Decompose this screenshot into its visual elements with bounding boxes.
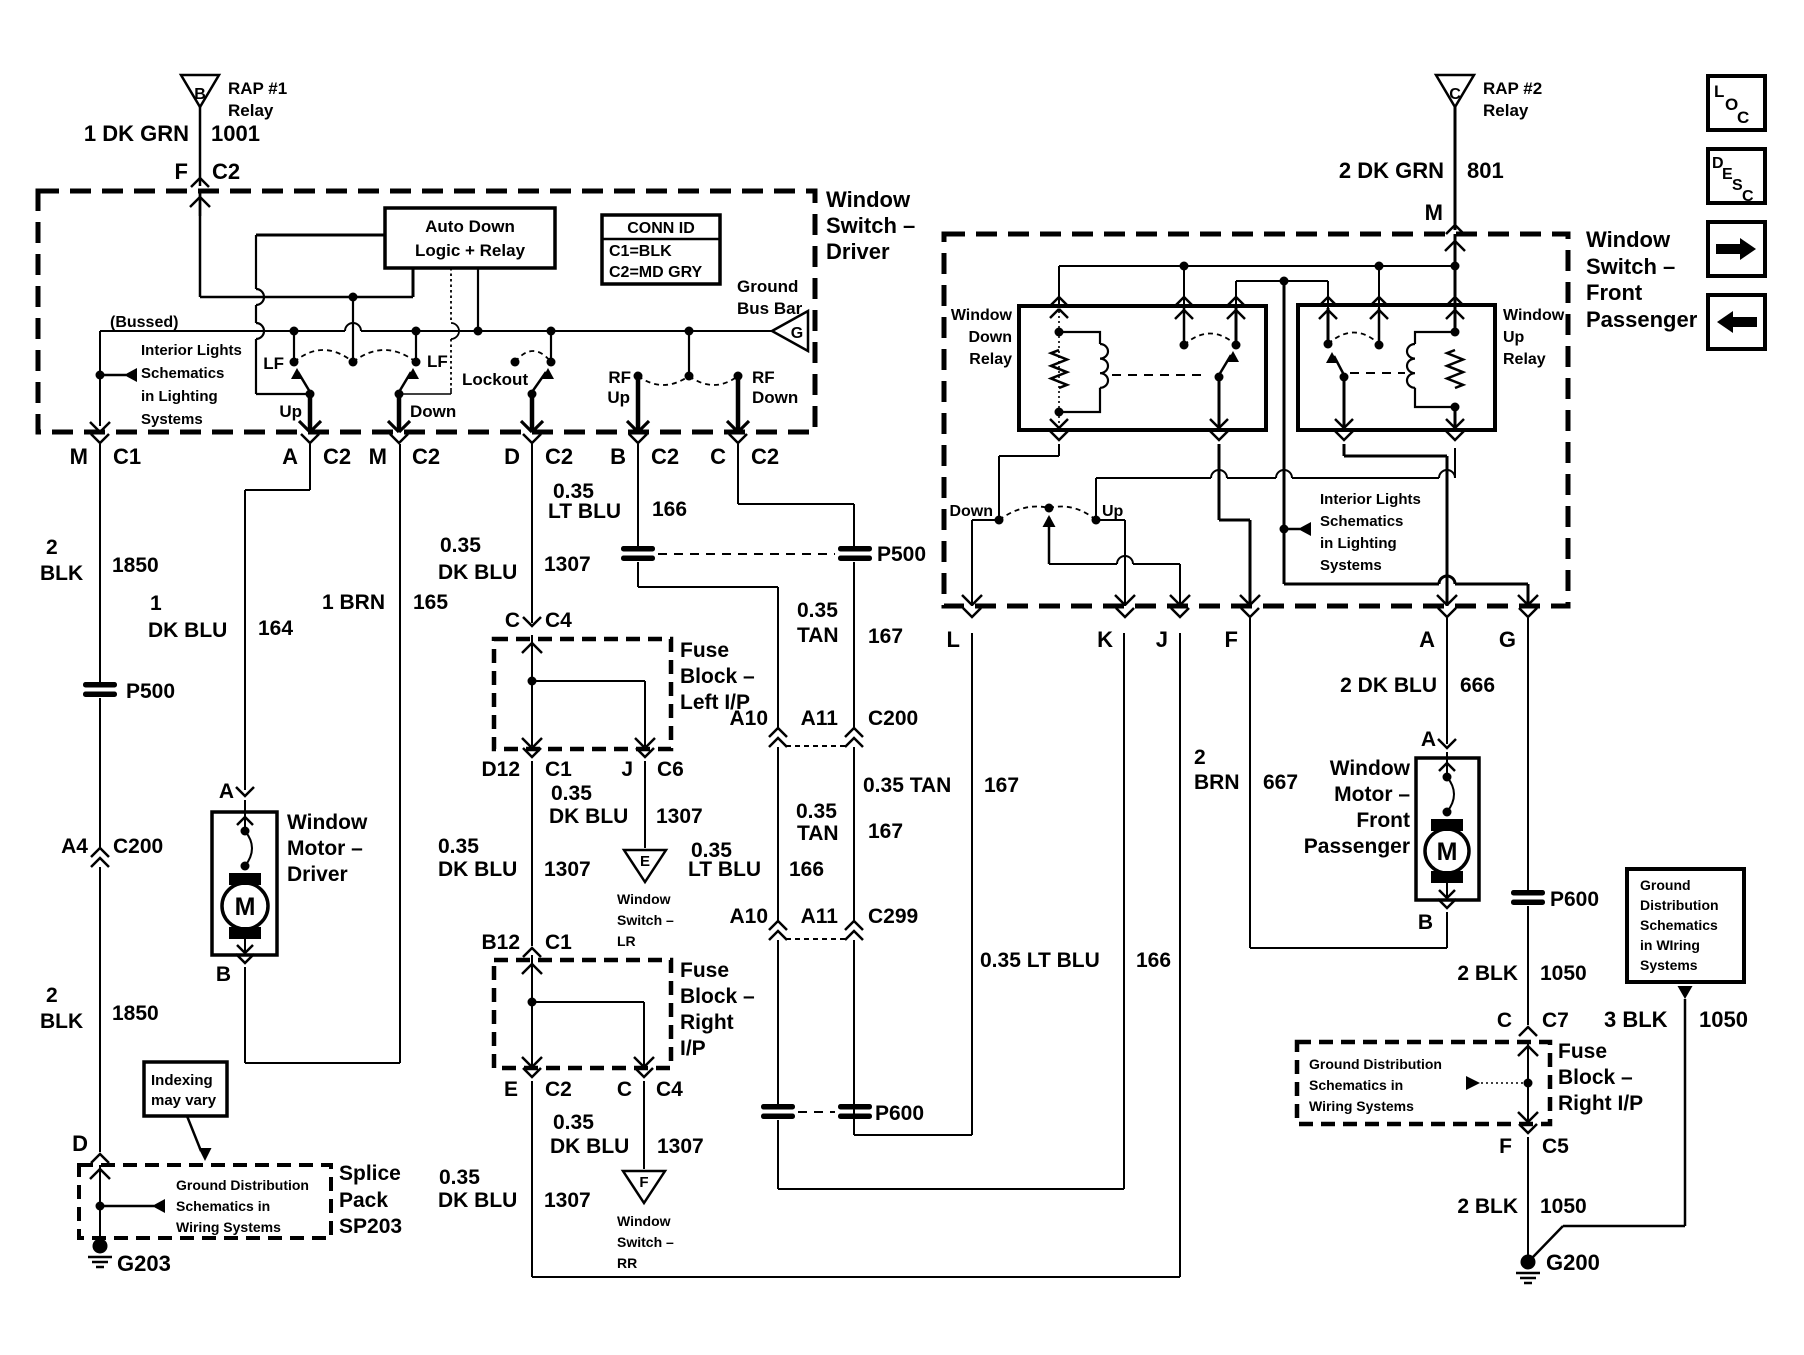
svg-text:C: C <box>1449 86 1461 103</box>
callout arrow to splice pack <box>187 1116 201 1151</box>
svg-text:D: D <box>504 444 520 469</box>
down relay coil L1 <box>1059 332 1100 344</box>
junction dot in left fuse block <box>528 677 537 686</box>
svg-text:801: 801 <box>1467 158 1504 183</box>
motor driver bottom pin arrow <box>244 939 246 955</box>
junction dots on feed wire <box>1180 262 1189 271</box>
svg-text:C: C <box>1497 1009 1512 1032</box>
svg-text:M: M <box>369 444 387 469</box>
svg-text:1050: 1050 <box>1699 1007 1748 1032</box>
svg-text:SP203: SP203 <box>339 1215 402 1238</box>
svg-text:Window: Window <box>617 1213 671 1229</box>
down relay resistor <box>1051 350 1067 388</box>
ground run wire to G output (hops A) <box>1284 583 1439 586</box>
inline connector P600 right cavity <box>838 1104 872 1110</box>
svg-text:C299: C299 <box>868 905 918 928</box>
wire 2 DK BLU 666 from A <box>1446 618 1448 744</box>
LF Up contact dot <box>290 358 299 367</box>
long output wire from relay link to ground run <box>1283 281 1286 584</box>
svg-text:Schematics in: Schematics in <box>176 1198 270 1214</box>
svg-text:Window: Window <box>826 187 911 212</box>
svg-text:E: E <box>640 853 650 870</box>
reference pointer Interior Lights Schematics (passenger) <box>1284 528 1300 531</box>
svg-text:DK BLU: DK BLU <box>550 1135 629 1158</box>
svg-text:RR: RR <box>617 1255 637 1271</box>
connector F <box>1241 608 1259 617</box>
svg-text:0.35: 0.35 <box>439 1166 480 1189</box>
svg-text:DK BLU: DK BLU <box>438 1189 517 1212</box>
wire J riser <box>1179 633 1181 1277</box>
svg-text:C1=BLK: C1=BLK <box>609 243 672 260</box>
motor driver commutator dots and arc <box>241 827 250 836</box>
svg-text:I/P: I/P <box>680 1037 706 1060</box>
svg-text:P600: P600 <box>875 1102 924 1125</box>
svg-text:Block –: Block – <box>680 985 755 1008</box>
svg-text:Up: Up <box>1503 329 1525 346</box>
down relay contact dots <box>1180 341 1189 350</box>
svg-text:2 BLK: 2 BLK <box>1457 962 1518 985</box>
svg-text:L: L <box>1714 82 1724 101</box>
svg-text:Switch –: Switch – <box>826 213 915 238</box>
svg-text:in WIring: in WIring <box>1640 937 1700 953</box>
svg-text:C: C <box>710 444 726 469</box>
svg-text:2: 2 <box>46 984 58 1007</box>
wire center contact drop <box>352 297 354 362</box>
LF Down pivot dot <box>395 390 404 399</box>
Auto Down module right pin drop to bus <box>477 268 479 331</box>
inline connector P500 (BLK) <box>83 682 117 688</box>
junction dot interior-lights tap <box>96 371 105 380</box>
motor FP brush bottom <box>1431 871 1463 883</box>
svg-text:LF: LF <box>263 354 284 373</box>
connector M C2 <box>390 434 408 443</box>
svg-text:2 BLK: 2 BLK <box>1457 1195 1518 1218</box>
svg-text:BLK: BLK <box>40 562 83 585</box>
connector G <box>1519 608 1537 617</box>
LF Up pivot dot <box>306 390 315 399</box>
wire LT BLU below P500 jog to x778 <box>637 562 639 587</box>
svg-text:F: F <box>175 159 188 184</box>
wire blade to J output (hops K) <box>1049 563 1117 565</box>
svg-text:C4: C4 <box>656 1078 683 1101</box>
svg-text:A10: A10 <box>729 707 768 730</box>
svg-text:in Lighting: in Lighting <box>1320 535 1397 552</box>
svg-text:P500: P500 <box>126 680 175 703</box>
left fuse block exit arrows <box>522 738 532 748</box>
up relay feed drop <box>1454 266 1457 306</box>
up relay coil return chevron <box>1446 431 1464 440</box>
svg-text:Down: Down <box>752 388 798 407</box>
motor driver top pin arrow <box>244 800 246 830</box>
Lockout right contact dot <box>547 358 556 367</box>
svg-text:C: C <box>1737 108 1749 127</box>
svg-text:1307: 1307 <box>544 858 591 881</box>
svg-text:1050: 1050 <box>1540 1195 1587 1218</box>
svg-text:Relay: Relay <box>1503 351 1546 368</box>
svg-text:G: G <box>791 325 803 342</box>
svg-text:DK BLU: DK BLU <box>549 805 628 828</box>
svg-text:C2: C2 <box>751 444 779 469</box>
svg-text:2 DK BLU: 2 DK BLU <box>1340 674 1437 697</box>
svg-text:2 DK GRN: 2 DK GRN <box>1339 158 1444 183</box>
RF Down contact dot <box>734 372 743 381</box>
svg-text:1307: 1307 <box>657 1135 704 1158</box>
svg-text:166: 166 <box>652 498 687 521</box>
svg-text:167: 167 <box>984 774 1019 797</box>
Window Switch - Driver dashed box <box>38 191 815 432</box>
wire 0.35 DK BLU 1307 from D/C2 <box>531 444 533 623</box>
svg-text:A: A <box>1421 728 1436 751</box>
center fuse block exit arrows <box>522 1057 532 1067</box>
passenger gang dashed arc Down-center <box>999 507 1049 521</box>
down relay coil return to Down contact <box>1050 431 1068 440</box>
up relay coil junction dots <box>1451 328 1460 337</box>
svg-text:A10: A10 <box>729 905 768 928</box>
svg-text:2: 2 <box>46 536 58 559</box>
svg-text:K: K <box>1097 627 1113 652</box>
up feed wire to up relay (hops F, link, A) <box>1095 478 1097 520</box>
svg-text:0.35: 0.35 <box>553 1111 594 1134</box>
up relay contact arrows <box>1327 308 1330 344</box>
off-page connector F window switch RR <box>623 1171 665 1203</box>
arrow entering passenger switch box <box>1454 234 1457 266</box>
Lockout switch left contact dot <box>511 358 520 367</box>
connector J <box>1171 608 1189 617</box>
down relay pivot output arrow <box>1218 377 1221 430</box>
Lockout pivot dot <box>528 390 537 399</box>
svg-text:167: 167 <box>868 625 903 648</box>
svg-text:C5: C5 <box>1542 1135 1569 1158</box>
svg-text:DK BLU: DK BLU <box>148 619 227 642</box>
svg-text:E: E <box>504 1078 518 1101</box>
RAP #1 Relay triangle connector B <box>181 75 219 107</box>
svg-text:0.35: 0.35 <box>440 534 481 557</box>
svg-text:B: B <box>1418 911 1433 934</box>
junction dot link to output <box>1280 277 1289 286</box>
svg-text:A11: A11 <box>801 707 839 730</box>
center dot passenger switch <box>1045 504 1054 513</box>
down relay right contact drop <box>1235 281 1237 310</box>
svg-text:Right: Right <box>680 1011 734 1034</box>
svg-text:Switch –: Switch – <box>617 912 674 928</box>
up relay pivot dot <box>1340 373 1349 382</box>
svg-text:C200: C200 <box>113 835 163 858</box>
svg-text:Front: Front <box>1586 280 1643 305</box>
svg-text:D12: D12 <box>481 758 520 781</box>
LF Down switch blade <box>399 372 411 392</box>
svg-text:Relay: Relay <box>228 101 274 120</box>
svg-text:0.35: 0.35 <box>796 800 837 823</box>
svg-text:Pack: Pack <box>339 1189 388 1212</box>
Lockout output arrow to D/C2 <box>530 394 535 432</box>
wire 2 BLK 1850 lower segment <box>99 867 101 1152</box>
svg-text:Block –: Block – <box>1558 1066 1633 1089</box>
junction dot module to bus <box>474 327 483 336</box>
svg-text:F: F <box>639 1174 648 1191</box>
svg-text:667: 667 <box>1263 771 1298 794</box>
svg-text:C1: C1 <box>113 444 141 469</box>
down relay contact arrows <box>1183 308 1186 345</box>
motor FP top pin arrow <box>1446 752 1448 776</box>
svg-text:Ground: Ground <box>737 277 798 296</box>
up relay resistor <box>1447 350 1463 388</box>
svg-text:1850: 1850 <box>112 1002 159 1025</box>
wire G output 2 BLK 1050 <box>1527 618 1529 890</box>
svg-text:L: L <box>947 627 960 652</box>
down relay mid contact drop <box>1183 266 1185 310</box>
Window Up Relay K2 box <box>1298 305 1495 430</box>
svg-text:Relay: Relay <box>969 351 1012 368</box>
wire Down contact to L output <box>972 519 999 521</box>
svg-text:1307: 1307 <box>544 553 591 576</box>
Indexing may vary callout box <box>144 1062 227 1116</box>
Up contact dot passenger <box>1092 516 1101 525</box>
wire BLK below P600 <box>1527 906 1529 1025</box>
Window Down Relay K1 box <box>1019 306 1266 430</box>
svg-text:Right I/P: Right I/P <box>1558 1092 1643 1115</box>
svg-text:RF: RF <box>608 368 631 387</box>
wire L riser 0.35 TAN 167 <box>971 633 973 1135</box>
dashed gang arc middle to RF Down <box>689 376 738 385</box>
window motor front passenger M2 box <box>1416 758 1479 900</box>
passenger switch blade arrow up <box>1048 517 1051 564</box>
Splice Pack SP203 dashed box <box>79 1165 331 1238</box>
connector A <box>1438 608 1456 617</box>
svg-text:in Lighting: in Lighting <box>141 388 218 405</box>
svg-text:Up: Up <box>607 388 630 407</box>
svg-text:Bus Bar: Bus Bar <box>737 299 803 318</box>
svg-text:Window: Window <box>617 891 671 907</box>
wire 0.35 TAN 167 from C/C2 <box>737 444 739 504</box>
svg-text:166: 166 <box>789 858 824 881</box>
svg-text:G200: G200 <box>1546 1250 1600 1275</box>
svg-text:0.35: 0.35 <box>797 599 838 622</box>
node center contact dot between LF switches <box>349 358 358 367</box>
svg-text:P500: P500 <box>877 543 926 566</box>
dashed link P600 <box>798 1111 835 1113</box>
svg-text:P600: P600 <box>1550 888 1599 911</box>
motor driver armature circle M <box>222 883 268 929</box>
svg-text:1050: 1050 <box>1540 962 1587 985</box>
Ground Bus Bar triangle G <box>772 311 808 351</box>
dashed gang arc LF Up to center <box>294 350 353 362</box>
svg-text:666: 666 <box>1460 674 1495 697</box>
wire Auto Down module bottom-left pin drop <box>412 268 415 297</box>
svg-text:Window: Window <box>287 811 368 834</box>
junction dot interior lights tap passenger <box>1280 525 1289 534</box>
inline connector P500 left cavity <box>621 546 655 552</box>
motor driver brush bottom <box>229 927 261 939</box>
RF Down output arrow to C/C2 <box>736 376 741 432</box>
contact link wire between relays <box>1236 280 1328 282</box>
wire bottom run E to J <box>532 1276 1180 1278</box>
wire TAN through P500 down <box>853 562 855 730</box>
wire F/C2 power drop inside box <box>199 191 202 297</box>
svg-text:LF: LF <box>427 352 448 371</box>
svg-text:0.35 TAN: 0.35 TAN <box>863 774 951 797</box>
wire 0.35 DK BLU 1307 to window switch RR <box>643 1081 645 1169</box>
svg-text:A: A <box>1419 627 1435 652</box>
up relay mechanical dashed link <box>1350 372 1405 374</box>
svg-text:167: 167 <box>868 820 903 843</box>
wire Auto Down module left pin to LF Up pivot (hops power and bus) <box>256 234 385 237</box>
off-page connector E window switch LR <box>624 850 666 882</box>
ground G203 <box>93 1239 108 1254</box>
svg-text:Wiring Systems: Wiring Systems <box>176 1219 281 1235</box>
svg-text:2: 2 <box>1194 746 1206 769</box>
LF Up output arrow to A/C2 <box>308 394 313 432</box>
svg-text:C2: C2 <box>212 159 240 184</box>
wire bussed corner down to M/C1 <box>99 331 101 426</box>
down relay coil junction dots <box>1055 328 1064 337</box>
svg-text:TAN: TAN <box>797 822 839 845</box>
svg-text:C2: C2 <box>412 444 440 469</box>
svg-text:BRN: BRN <box>1194 771 1240 794</box>
svg-text:C4: C4 <box>545 609 572 632</box>
wire Up contact to K output <box>1096 519 1125 521</box>
svg-text:1 BRN: 1 BRN <box>322 591 385 614</box>
svg-text:1307: 1307 <box>656 805 703 828</box>
RAP #2 Relay triangle connector C <box>1436 75 1474 107</box>
feed wire from M across relays <box>1059 265 1455 267</box>
dashed gang arc center to LF Down <box>353 350 416 362</box>
down relay internal dotted path with arrows <box>1058 306 1060 430</box>
dashed connector line C299 <box>786 938 846 940</box>
RF Up output arrow to B/C2 <box>636 376 641 432</box>
svg-text:Down: Down <box>410 402 456 421</box>
up relay coil return arrow <box>1454 407 1457 430</box>
svg-text:Fuse: Fuse <box>1558 1040 1607 1063</box>
Fuse Block - Left I/P dashed box <box>494 639 671 749</box>
svg-text:Relay: Relay <box>1483 101 1529 120</box>
wire inside center right fuse block with up arrow <box>531 955 533 1066</box>
RF middle dot <box>685 372 694 381</box>
svg-text:C200: C200 <box>868 707 918 730</box>
Fuse Block - Right I/P dashed box (right) <box>1297 1042 1550 1124</box>
svg-text:C1: C1 <box>545 758 572 781</box>
svg-text:J: J <box>621 758 633 781</box>
wire RAP#2 2 DK GRN 801 <box>1454 107 1457 230</box>
svg-text:166: 166 <box>1136 949 1171 972</box>
svg-text:Window: Window <box>1503 307 1565 324</box>
svg-text:Front: Front <box>1356 809 1410 832</box>
wire LT BLU bottom run to K riser <box>777 1120 779 1189</box>
wire TAN below C299 to bottom corner <box>853 940 855 1135</box>
svg-text:Up: Up <box>1102 503 1124 520</box>
connector C C2 <box>729 434 747 443</box>
svg-text:3 BLK: 3 BLK <box>1604 1007 1668 1032</box>
CONN ID table <box>602 215 720 284</box>
LF Down output arrow to M/C2 <box>397 394 402 432</box>
svg-text:Interior Lights: Interior Lights <box>141 342 242 359</box>
connector K <box>1116 608 1134 617</box>
wire inside left fuse block with down arrow <box>531 635 533 746</box>
svg-text:Systems: Systems <box>1320 557 1382 574</box>
svg-text:Logic + Relay: Logic + Relay <box>415 241 526 260</box>
svg-text:Auto Down: Auto Down <box>425 217 515 236</box>
svg-text:165: 165 <box>413 591 448 614</box>
wire TAN bottom run to L riser <box>854 1134 972 1136</box>
svg-text:(Bussed): (Bussed) <box>110 314 178 331</box>
svg-text:0.35: 0.35 <box>551 782 592 805</box>
svg-text:1850: 1850 <box>112 554 159 577</box>
motor driver brush top <box>229 873 261 885</box>
wire 1 DK BLU 164 from A/C2 <box>309 444 311 490</box>
svg-text:Fuse: Fuse <box>680 639 729 662</box>
svg-text:0.35: 0.35 <box>438 835 479 858</box>
wire 0.35 DK BLU 1307 to window switch LR <box>644 761 646 848</box>
svg-text:1001: 1001 <box>211 121 260 146</box>
svg-text:B: B <box>610 444 626 469</box>
reference pointer Ground Distribution Schematics (splice) <box>100 1205 154 1208</box>
svg-text:Splice: Splice <box>339 1162 401 1185</box>
svg-text:A: A <box>219 780 234 803</box>
connector D C2 <box>523 434 541 443</box>
Ground Distribution Schematics in Wiring Systems solid box <box>1627 869 1744 982</box>
down relay feed drop <box>1058 266 1060 306</box>
bussed output arrow to M/C1 <box>90 422 100 432</box>
wire 0.35 TAN 167 segment C200-C299 <box>853 747 855 923</box>
svg-text:G203: G203 <box>117 1251 171 1276</box>
wire 3 BLK 1050 <box>1684 999 1687 1226</box>
svg-text:Ground: Ground <box>1640 877 1691 893</box>
svg-text:Passenger: Passenger <box>1586 307 1698 332</box>
up relay pivot to A output <box>1335 431 1353 440</box>
up relay coil L2 <box>1415 332 1455 344</box>
svg-text:C1: C1 <box>545 931 572 954</box>
up relay gang dashed arc <box>1328 333 1379 345</box>
wire F riser 2 BRN 667 <box>1249 618 1251 948</box>
down relay pivot to F output <box>1210 431 1228 440</box>
svg-text:Up: Up <box>279 402 302 421</box>
inline connector P600 left cavity <box>761 1104 795 1110</box>
down relay mechanical dashed link <box>1112 374 1203 376</box>
svg-text:Systems: Systems <box>1640 957 1698 973</box>
wire K riser 0.35 LT BLU 166 <box>1123 633 1125 1189</box>
up relay contact dots <box>1324 340 1333 349</box>
svg-text:1: 1 <box>150 592 162 615</box>
wire 2 BLK 1850 upper segment <box>99 444 101 682</box>
wire 0.35 LT BLU 166 segment C200-C299 <box>777 747 779 923</box>
wire motor driver B to M/C2 riser (1 BRN 165) <box>244 967 246 1063</box>
svg-text:A: A <box>282 444 298 469</box>
svg-text:C7: C7 <box>1542 1009 1569 1032</box>
motor FP brush top <box>1431 819 1463 831</box>
Auto Down module dotted link to LF Down pivot (hops bus) <box>450 268 452 323</box>
LF Down switch contact tap from bus <box>412 327 421 336</box>
svg-text:Switch –: Switch – <box>1586 254 1675 279</box>
svg-text:B: B <box>216 963 231 986</box>
down relay pivot dot <box>1215 373 1224 382</box>
svg-text:Passenger: Passenger <box>1304 835 1410 858</box>
wire into splice pack with up arrow <box>99 1165 101 1240</box>
svg-text:Ground Distribution: Ground Distribution <box>1309 1056 1442 1072</box>
svg-text:C2: C2 <box>545 1078 572 1101</box>
svg-text:Switch –: Switch – <box>617 1234 674 1250</box>
svg-text:C2: C2 <box>651 444 679 469</box>
svg-text:TAN: TAN <box>797 624 839 647</box>
svg-text:Distribution: Distribution <box>1640 897 1719 913</box>
wire BLK below P500 <box>99 698 101 848</box>
svg-text:may vary: may vary <box>151 1092 217 1109</box>
wire RAP#1 to F/C2 (1 DK GRN 1001) <box>199 107 202 186</box>
svg-text:BLK: BLK <box>40 1010 83 1033</box>
up relay mid contact drop <box>1378 266 1380 310</box>
wire through right fuse block with up arrow <box>1527 1042 1529 1124</box>
svg-text:Driver: Driver <box>826 239 890 264</box>
svg-text:M: M <box>70 444 88 469</box>
svg-text:Ground Distribution: Ground Distribution <box>176 1177 309 1193</box>
